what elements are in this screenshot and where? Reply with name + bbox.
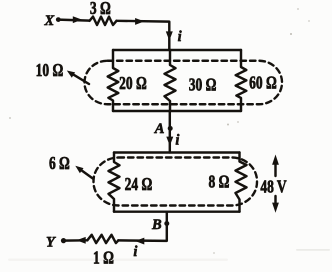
arrow from loop to 6 ohm label xyxy=(80,169,94,179)
box 2 top wire xyxy=(114,151,240,153)
current arrow down on vertical wire xyxy=(166,31,173,40)
svg-text:X: X xyxy=(44,13,55,29)
svg-text:10 Ω: 10 Ω xyxy=(36,61,64,80)
box 1 bottom wire xyxy=(113,110,241,112)
node Y xyxy=(46,235,56,251)
resistor 60 ohm branch (right edge) xyxy=(236,50,247,111)
48 V measurement arrow lower xyxy=(274,196,276,203)
dashed equivalence loop around 24/8 xyxy=(94,158,258,206)
svg-text:B: B xyxy=(151,217,162,233)
svg-text:Y: Y xyxy=(46,235,56,251)
current arrow below A xyxy=(166,137,173,146)
current arrow on bottom rail near B xyxy=(135,238,144,245)
wire box2 to bottom rail through node B xyxy=(118,212,167,241)
svg-text:A: A xyxy=(154,121,165,137)
svg-text:30 Ω: 30 Ω xyxy=(189,76,217,95)
svg-text:i: i xyxy=(178,29,182,45)
svg-text:i: i xyxy=(175,132,179,148)
svg-text:1 Ω: 1 Ω xyxy=(93,249,114,268)
48 V measurement arrow upper xyxy=(274,164,276,176)
label 8 ohm xyxy=(209,173,230,192)
label 60 ohm xyxy=(249,74,277,93)
arrow from loop to 10 ohm label xyxy=(72,73,90,84)
resistor 24 ohm branch (left edge) xyxy=(109,153,120,212)
wire X to resistor with current arrow xyxy=(58,20,89,21)
label 3 ohm xyxy=(90,0,111,19)
svg-text:i: i xyxy=(133,244,137,260)
resistor R 3ohm xyxy=(90,17,117,25)
resistor 8 ohm branch (right edge) xyxy=(236,153,247,212)
label B xyxy=(151,217,162,233)
node A dot xyxy=(168,126,173,131)
svg-text:8 Ω: 8 Ω xyxy=(209,173,230,192)
svg-text:3 Ω: 3 Ω xyxy=(90,0,111,19)
svg-text:20 Ω: 20 Ω xyxy=(119,74,147,93)
label A xyxy=(154,121,165,137)
label 48 V xyxy=(260,178,287,197)
svg-text:48 V: 48 V xyxy=(260,178,287,197)
box 2 bottom wire xyxy=(114,210,240,212)
label 6 ohm xyxy=(49,154,70,173)
svg-text:60 Ω: 60 Ω xyxy=(249,74,277,93)
box 1 top wire xyxy=(113,49,241,51)
resistor R 1 ohm xyxy=(87,235,118,243)
label 30 ohm xyxy=(189,76,217,95)
svg-text:6 Ω: 6 Ω xyxy=(49,154,70,173)
label 1 ohm xyxy=(93,249,114,268)
label 24 ohm xyxy=(125,175,153,194)
label i (top) xyxy=(178,29,182,45)
label i (bottom) xyxy=(133,244,137,260)
node B dot xyxy=(164,221,169,226)
wire resistor to corner, arrow, down into box xyxy=(117,21,170,50)
svg-text:24 Ω: 24 Ω xyxy=(125,175,153,194)
terminal dot at X xyxy=(56,17,61,22)
node X xyxy=(44,13,55,29)
terminal dot at Y xyxy=(61,238,66,243)
wire box1 to box2 through node A xyxy=(169,111,171,153)
wire resistor to Y terminal with arrow xyxy=(64,239,88,242)
label i (middle) xyxy=(175,132,179,148)
resistor 20 ohm branch (left edge) xyxy=(108,50,119,111)
resistor 30 ohm branch (middle) xyxy=(165,50,176,111)
dashed equivalence loop around 20/30/60 xyxy=(85,61,283,105)
label 20 ohm xyxy=(119,74,147,93)
label 10 ohm xyxy=(36,61,64,80)
